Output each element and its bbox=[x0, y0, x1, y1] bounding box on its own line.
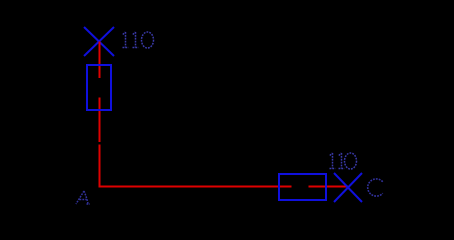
resistor R1 (vertical) bbox=[87, 65, 111, 110]
node C label bbox=[368, 179, 383, 196]
label "110" for X2 bbox=[330, 153, 357, 169]
lamp terminal X2 (right) bbox=[334, 173, 362, 202]
wire: horizontal from corner A into R2 bbox=[99, 186, 292, 188]
wire: lower lead of R1 down to junction bbox=[99, 98, 101, 143]
resistor R2 (horizontal) bbox=[279, 174, 326, 200]
label "110" for X1 bbox=[123, 32, 154, 48]
wire: right lead of R2 to X2 bbox=[309, 186, 349, 188]
node A label bbox=[76, 191, 90, 204]
wire: upper lead from X1 into R1 bbox=[99, 42, 101, 79]
wire: junction down to corner node A bbox=[99, 145, 101, 188]
lamp terminal X1 (top) bbox=[84, 27, 114, 56]
